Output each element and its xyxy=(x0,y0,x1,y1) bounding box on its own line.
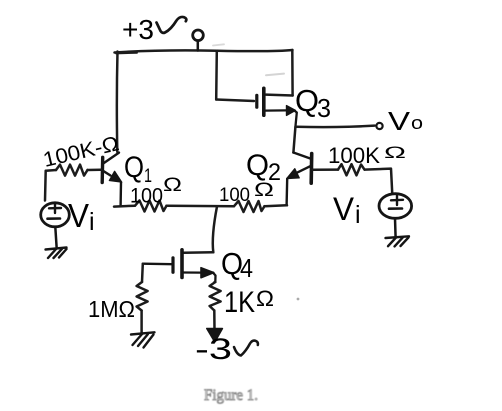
svg-text:Q: Q xyxy=(246,149,269,182)
transistor Q2 (PNP BJT) xyxy=(287,153,312,206)
svg-text:100K: 100K xyxy=(328,143,380,168)
stray faint mark near rail xyxy=(213,44,224,45)
wire Q1 base left xyxy=(46,169,56,172)
wire gate down to 1M xyxy=(141,264,144,282)
handwritten V of -3V xyxy=(234,341,258,356)
svg-text:3: 3 xyxy=(317,93,331,123)
stray faint dot right xyxy=(297,298,300,301)
svg-text:1K: 1K xyxy=(224,286,255,319)
ground 1M xyxy=(131,332,155,347)
caption Figure 1. xyxy=(204,387,258,404)
svg-text:+3: +3 xyxy=(122,14,154,45)
resistor 100K left xyxy=(56,165,88,176)
resistor 100 left xyxy=(135,201,167,212)
transistor Q3 (MOSFET) xyxy=(257,88,297,127)
svg-text:Figure 1.: Figure 1. xyxy=(204,387,258,404)
svg-text:Q: Q xyxy=(124,151,144,184)
stray faint mark above Q3 xyxy=(266,74,284,76)
wire right 100 to Q2 emitter xyxy=(265,204,288,207)
wire left Vi vertical xyxy=(44,171,47,201)
resistor 100K right xyxy=(338,164,365,175)
wire main horizontal (emitters) xyxy=(114,204,135,207)
ground left Vi xyxy=(46,248,67,259)
transistor Q4 (MOSFET) xyxy=(143,250,216,282)
svg-text:Q: Q xyxy=(295,83,319,118)
resistor 1K vertical xyxy=(210,282,221,311)
source Vi right xyxy=(379,194,412,238)
wire junction down to Q4 drain xyxy=(213,207,217,253)
svg-text:Ω: Ω xyxy=(256,286,274,311)
source Vi left xyxy=(41,203,70,247)
wire Q3 drain horizontal xyxy=(266,93,293,96)
svg-text:1MΩ: 1MΩ xyxy=(88,296,135,322)
wire Q4 drain horizontal xyxy=(184,251,214,254)
svg-text:o: o xyxy=(411,113,423,133)
svg-text:Ω: Ω xyxy=(163,175,182,196)
svg-text:i: i xyxy=(355,201,361,229)
wire resistor to source xyxy=(365,169,393,193)
svg-text:V: V xyxy=(333,191,355,227)
terminal +3V xyxy=(193,30,204,41)
arrow to -3V xyxy=(207,329,223,343)
wire top rail +3V xyxy=(115,50,293,53)
svg-text:Ω: Ω xyxy=(254,180,274,201)
svg-text:4: 4 xyxy=(240,253,253,283)
resistor 1M vertical xyxy=(137,282,148,311)
ground right xyxy=(386,236,410,246)
svg-text:-3: -3 xyxy=(195,333,232,366)
wire Q3 source to Q2 collector xyxy=(293,127,295,153)
wire Vo tap xyxy=(296,126,375,127)
svg-text:i: i xyxy=(89,208,95,236)
wire between 100 resistors xyxy=(167,205,235,208)
svg-text:V: V xyxy=(68,197,89,234)
resistor 100 right xyxy=(234,201,265,212)
node Vo terminal xyxy=(376,123,382,129)
wire Q2 base xyxy=(313,168,338,171)
svg-text:V: V xyxy=(388,106,411,136)
svg-text:100: 100 xyxy=(130,185,163,208)
wire middle vertical from rail to Q3 gate xyxy=(215,51,218,100)
wire terminal stem xyxy=(197,41,200,51)
svg-text:100: 100 xyxy=(219,184,250,206)
wire right vertical from rail to Q3 drain xyxy=(291,50,294,96)
wire 1M to ground xyxy=(140,311,143,334)
wire Q3 gate horizontal xyxy=(216,100,254,102)
handwritten V of +3V xyxy=(157,17,187,33)
svg-text:Ω: Ω xyxy=(384,143,406,162)
wire 1K down xyxy=(213,311,216,330)
wire resistor to Q1 base xyxy=(88,168,102,171)
transistor Q1 (PNP BJT) xyxy=(102,153,122,206)
wire left vertical from rail to Q1 collector xyxy=(116,52,119,153)
wire top rail retrace xyxy=(116,52,137,55)
wire Q4 source down to 1K xyxy=(213,281,216,284)
